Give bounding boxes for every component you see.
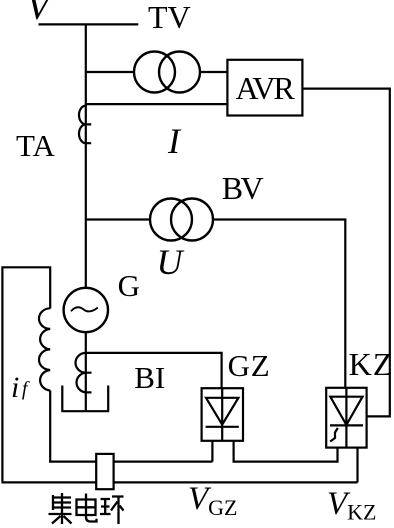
rectifier KZ thyristor <box>330 388 363 448</box>
wire I signal to AVR lower input <box>86 103 228 105</box>
label V (bus voltage, cropped at top) <box>27 0 50 26</box>
wire bottom rail to KZ lower-right terminal <box>1 448 357 483</box>
label i_f (field current) <box>11 373 27 403</box>
wire field winding bottom to slip ring to GZ lower-left terminal <box>50 391 212 462</box>
label TV <box>148 1 191 33</box>
current transformer TA coil <box>79 106 91 144</box>
rectifier GZ diode <box>206 388 239 441</box>
rectifier KZ box <box>326 388 366 448</box>
wire field winding top lead to left rail <box>2 267 50 481</box>
label U (voltage signal) <box>157 244 183 280</box>
label GZ <box>228 350 271 381</box>
rectifier GZ box <box>202 388 243 441</box>
wire main line to BV primary <box>86 218 150 220</box>
label AVR <box>236 72 293 104</box>
label KZ <box>349 348 394 380</box>
wire TV secondary to AVR input <box>200 71 228 73</box>
wire busline to TV primary <box>86 71 134 73</box>
generator G circle <box>64 288 108 332</box>
label TA <box>16 130 55 161</box>
field winding Lf <box>39 308 50 390</box>
regulator AVR box <box>227 60 302 116</box>
label BI <box>134 362 165 393</box>
label V_KZ <box>327 488 377 524</box>
wire BV secondary down to KZ top <box>213 220 345 388</box>
label I (current signal) <box>168 123 180 159</box>
label G <box>118 270 140 301</box>
label V_GZ <box>188 483 238 519</box>
slip ring 集电环 box <box>96 454 113 489</box>
label 集电环 character 电 <box>77 494 97 522</box>
transformer BV <box>150 199 213 241</box>
wire AVR output to KZ right side <box>302 89 390 417</box>
brush bracket under generator <box>61 386 109 412</box>
wire main vertical from busbar to generator G <box>85 24 87 288</box>
generator G sine mark <box>71 307 98 311</box>
label 集电环 character 集 <box>49 493 72 524</box>
wire main vertical below G through BI to brush bracket <box>85 332 87 412</box>
label BV <box>222 172 261 204</box>
busbar <box>39 23 139 25</box>
current transformer BI coil <box>75 353 91 393</box>
transformer TV <box>134 52 200 93</box>
wire junction below G to GZ top <box>86 353 222 388</box>
wire GZ lower-right terminal to KZ lower-left terminal <box>234 441 338 462</box>
label 集电环 character 环 <box>100 497 124 525</box>
